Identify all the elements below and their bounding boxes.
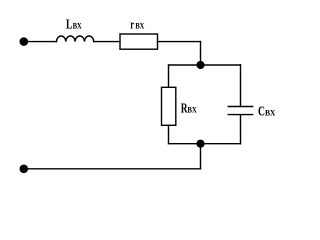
resistor Rвх [162,87,176,125]
wire bottom to terminal [24,168,201,170]
terminal top-left [20,37,29,46]
wire bottom rail [169,143,241,145]
wire inductor to resistor r [94,41,120,43]
node B junction dot [196,140,204,148]
wire left branch down to resistor R [168,65,170,87]
wire top rail [169,64,241,66]
svg-text:C: C [258,104,265,119]
node A junction dot [196,61,204,69]
wire resistor R to bottom rail [168,125,170,143]
svg-text:ВХ: ВХ [265,107,276,117]
inductor Lвх [57,36,94,42]
wire node B down [200,144,202,169]
svg-text:ВХ: ВХ [73,21,83,31]
wire top-left terminal to inductor [24,41,56,43]
svg-text:L: L [66,18,72,33]
wire corner down to node A [200,42,202,65]
wire capacitor C to bottom rail [240,115,242,144]
resistor rвх [120,34,158,49]
wire right branch down to capacitor C [240,65,242,107]
svg-text:ВХ: ВХ [135,21,145,31]
capacitor Cвх top plate [228,106,252,108]
svg-text:r: r [130,17,134,32]
wire resistor r to corner [158,41,201,43]
capacitor Cвх bottom plate [228,114,252,116]
terminal bottom-left [20,165,29,174]
svg-text:ВХ: ВХ [187,105,197,115]
